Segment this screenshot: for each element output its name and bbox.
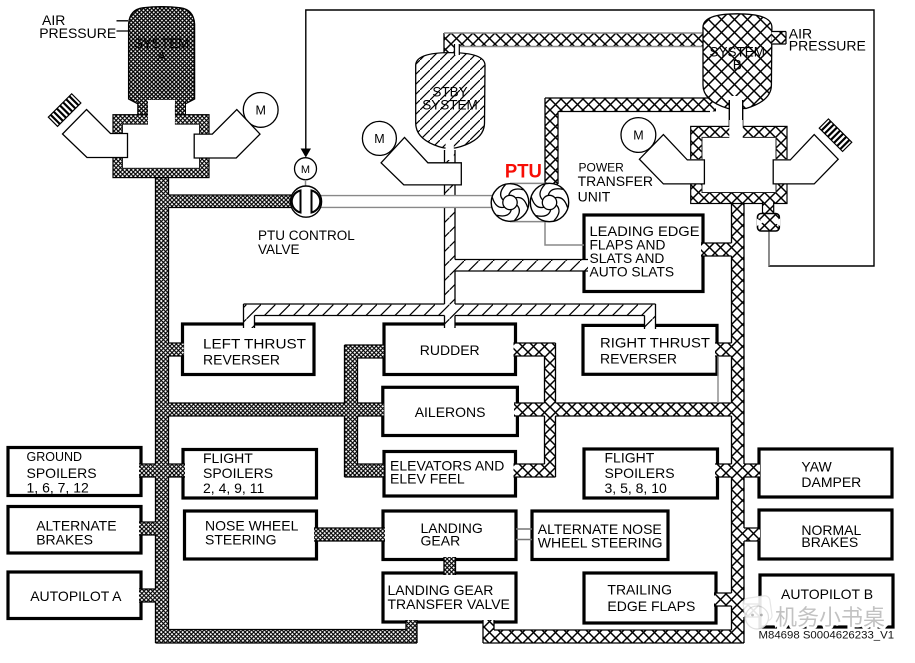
svg-text:SPOILERS: SPOILERS: [605, 465, 675, 481]
svg-text:1, 6, 7, 12: 1, 6, 7, 12: [27, 479, 89, 495]
svg-text:RUDDER: RUDDER: [420, 342, 480, 358]
box ELEVATORS: [384, 452, 516, 497]
pump: standby pump (body): [381, 137, 461, 185]
reservoir SYSTEM A: [129, 7, 195, 106]
svg-text:TRANSFER VALVE: TRANSFER VALVE: [388, 596, 510, 612]
reservoir B air stub: [771, 32, 786, 45]
wire right thrust reverser return channel: [717, 356, 719, 403]
svg-text:STEERING: STEERING: [205, 532, 277, 548]
wire A8 left thrust reverser stub: [166, 343, 184, 356]
wire B11 yaw damper stub: [742, 464, 761, 477]
svg-text:RIGHT THRUST: RIGHT THRUST: [600, 335, 710, 351]
svg-text:ELEV FEEL: ELEV FEEL: [390, 471, 465, 487]
svg-text:AUTOPILOT A: AUTOPILOT A: [30, 588, 122, 604]
box AUTOPILOT B: [760, 575, 893, 627]
check valve (B manifold air line): [763, 202, 774, 215]
svg-text:3, 5, 8, 10: 3, 5, 8, 10: [605, 480, 667, 496]
pump: engine-driven pump system A (shaft): [48, 94, 81, 127]
reservoir B neck: [729, 96, 742, 138]
svg-text:GROUND: GROUND: [27, 450, 83, 464]
wire A11 alt brakes stub: [139, 522, 157, 535]
svg-text:A: A: [157, 49, 166, 64]
svg-text:M84698 S0004626233_V1: M84698 S0004626233_V1: [759, 630, 895, 642]
box NORMAL BRAKES: [759, 510, 892, 559]
box GROUND SPOILERS: [8, 448, 141, 496]
box ALTERNATE BRAKES: [8, 507, 141, 554]
wire B9 ailerons-B run: [514, 403, 734, 416]
wire PTU output to leading edge box: [545, 221, 584, 245]
box TRAILING EDGE FLAPS: [584, 573, 716, 623]
svg-text:GEAR: GEAR: [421, 533, 461, 549]
stby reservoir top connector to B line: [455, 44, 460, 55]
wire A1 main vertical: [156, 168, 169, 643]
svg-text:TRAILING: TRAILING: [607, 581, 672, 597]
svg-text:M: M: [255, 103, 265, 117]
wire A2 bottom run: [156, 630, 418, 644]
pump: electric pump system A (body): [194, 110, 260, 159]
wire A13 nose wheel-landing gear link: [314, 528, 385, 541]
valve PTU control valve: [290, 186, 321, 217]
wire A15 transfer valve bottom stub: [406, 620, 417, 631]
svg-text:VALVE: VALVE: [258, 242, 300, 257]
svg-text:B: B: [733, 58, 742, 73]
wire landing gear to alt nose wheel steering: [516, 529, 532, 540]
svg-text:LEFT THRUST: LEFT THRUST: [203, 336, 306, 352]
wire PTU control valve to PTU (white line): [316, 196, 492, 208]
svg-text:BRAKES: BRAKES: [801, 534, 858, 550]
svg-text:YAW: YAW: [801, 458, 832, 474]
wire A9 ground spoilers stub: [139, 464, 157, 477]
wire B1 gray walls: [444, 33, 705, 47]
motor M standby pump: [362, 121, 396, 155]
wire B4 main vertical: [732, 200, 745, 643]
wire B16 rudder-elev vertical: [545, 343, 556, 477]
wire B5 bottom run: [483, 630, 744, 643]
wire air line to B manifold check valve: [768, 231, 770, 266]
wire S1 standby vertical: [445, 150, 456, 328]
wire S5 right elbow down: [645, 304, 656, 329]
svg-text:PTU: PTU: [505, 162, 542, 183]
box YAW DAMPER: [759, 449, 892, 497]
pump: electric pump system B (body): [639, 135, 704, 184]
svg-text:2, 4, 9, 11: 2, 4, 9, 11: [203, 480, 264, 496]
wire B2 upper run: [545, 98, 716, 112]
box LEFT THRUST REVERSER: [183, 324, 315, 375]
wire B12 normal brakes stub: [742, 528, 761, 541]
svg-text:M: M: [301, 164, 310, 176]
box RIGHT THRUST REVERSER: [583, 325, 717, 374]
wire A14 landing gear-transfer valve stub: [444, 557, 456, 575]
svg-text:REVERSER: REVERSER: [600, 351, 677, 367]
wire A4 mid run to ailerons: [168, 403, 384, 416]
svg-text:PTU CONTROL: PTU CONTROL: [258, 228, 355, 243]
wire A10 flight spoilers stub: [166, 464, 185, 477]
box ALT NOSE WHEEL STRG: [532, 511, 668, 560]
svg-text:FLIGHT: FLIGHT: [203, 450, 253, 466]
motor M PTU control valve: [295, 158, 317, 180]
svg-text:DAMPER: DAMPER: [801, 474, 861, 490]
watermark logo: [742, 595, 772, 629]
motor M electric pump system A: [243, 93, 278, 128]
wire A5 vertical 2: [345, 345, 358, 477]
wire S3 thrust reverser run: [244, 304, 656, 316]
wire B3 drop to PTU: [545, 98, 558, 186]
svg-text:UNIT: UNIT: [578, 189, 611, 205]
box FLIGHT SPOILERS L: [183, 450, 317, 499]
wire B10 flight spoilers R stub: [715, 464, 734, 477]
svg-text:机务小书桌: 机务小书桌: [775, 605, 885, 630]
manifold system A: [113, 115, 209, 178]
box NOSE WHEEL STEERING: [185, 511, 317, 559]
svg-text:SYSTEM: SYSTEM: [422, 98, 478, 113]
reservoir STBY SYSTEM: [416, 53, 485, 148]
box LANDING GEAR: [383, 511, 516, 560]
pump: engine-driven pump system B (shaft): [819, 119, 852, 152]
wire A7 elevator stub: [357, 464, 384, 477]
leader lines AIR PRESSURE (left): [117, 21, 129, 31]
wire B13 trailing edge stub: [714, 593, 734, 606]
box FLIGHT SPOILERS R: [584, 449, 718, 498]
svg-text:BRAKES: BRAKES: [36, 532, 93, 548]
wire A3 to PTU control valve: [168, 195, 294, 208]
wire S4 left elbow down: [244, 304, 255, 328]
wire air-pressure line (top / right side): [306, 10, 874, 266]
wire system B pipe walls: [444, 33, 760, 643]
wire standby pipe walls: [244, 150, 656, 329]
pump: engine-driven pump system B (body): [773, 135, 838, 184]
arrow into PTU control valve motor: [301, 149, 311, 158]
svg-text:AILERONS: AILERONS: [415, 404, 486, 420]
svg-text:M: M: [633, 129, 643, 143]
box LG TRANSFER VALVE: [383, 573, 516, 622]
svg-text:AUTO SLATS: AUTO SLATS: [590, 265, 675, 280]
svg-text:PRESSURE: PRESSURE: [789, 38, 866, 54]
PTU pump wheel (right, system B side): [530, 183, 568, 221]
svg-text:PRESSURE: PRESSURE: [39, 25, 116, 41]
wire B14 autopilot B stub: [742, 604, 760, 617]
svg-text:TRANSFER: TRANSFER: [578, 173, 653, 189]
PTU motor wheel (left, system A side): [491, 184, 529, 222]
svg-text:M: M: [374, 132, 384, 146]
svg-text:REVERSER: REVERSER: [203, 352, 280, 368]
svg-text:AUTOPILOT B: AUTOPILOT B: [781, 586, 873, 602]
wire A12 autopilot A stub: [139, 589, 157, 602]
motor M electric pump system B: [621, 118, 656, 153]
box AILERONS: [383, 387, 518, 435]
wire B1 reservoir air line: [444, 33, 705, 47]
wire B15 rudder right stub: [514, 343, 556, 356]
wire B1 left elbow: [444, 33, 455, 54]
svg-text:FLIGHT: FLIGHT: [605, 450, 655, 466]
pump: engine-driven pump system A (body): [63, 110, 128, 158]
wire S2 to leading edge box: [455, 260, 588, 272]
reservoir SYSTEM B: [703, 14, 772, 109]
box RUDDER: [384, 324, 516, 375]
box LEADING EDGE: [584, 215, 703, 292]
wire B6 transfer valve stub: [483, 620, 494, 631]
wire B7 leading edge stub: [701, 243, 734, 256]
wire B8 right thrust rev stub: [715, 343, 734, 356]
wire B17 elevator right stub: [514, 464, 556, 477]
box AUTOPILOT A: [8, 572, 141, 619]
wire A6 rudder stub: [357, 345, 384, 358]
svg-text:EDGE FLAPS: EDGE FLAPS: [607, 598, 695, 614]
manifold system B: [691, 126, 787, 203]
svg-text:WHEEL STEERING: WHEEL STEERING: [538, 534, 663, 550]
reservoir A neck legs: [138, 100, 148, 128]
PTU power transfer unit: [510, 183, 550, 221]
wire system A pipe walls: [139, 168, 456, 643]
svg-text:SPOILERS: SPOILERS: [203, 465, 273, 481]
